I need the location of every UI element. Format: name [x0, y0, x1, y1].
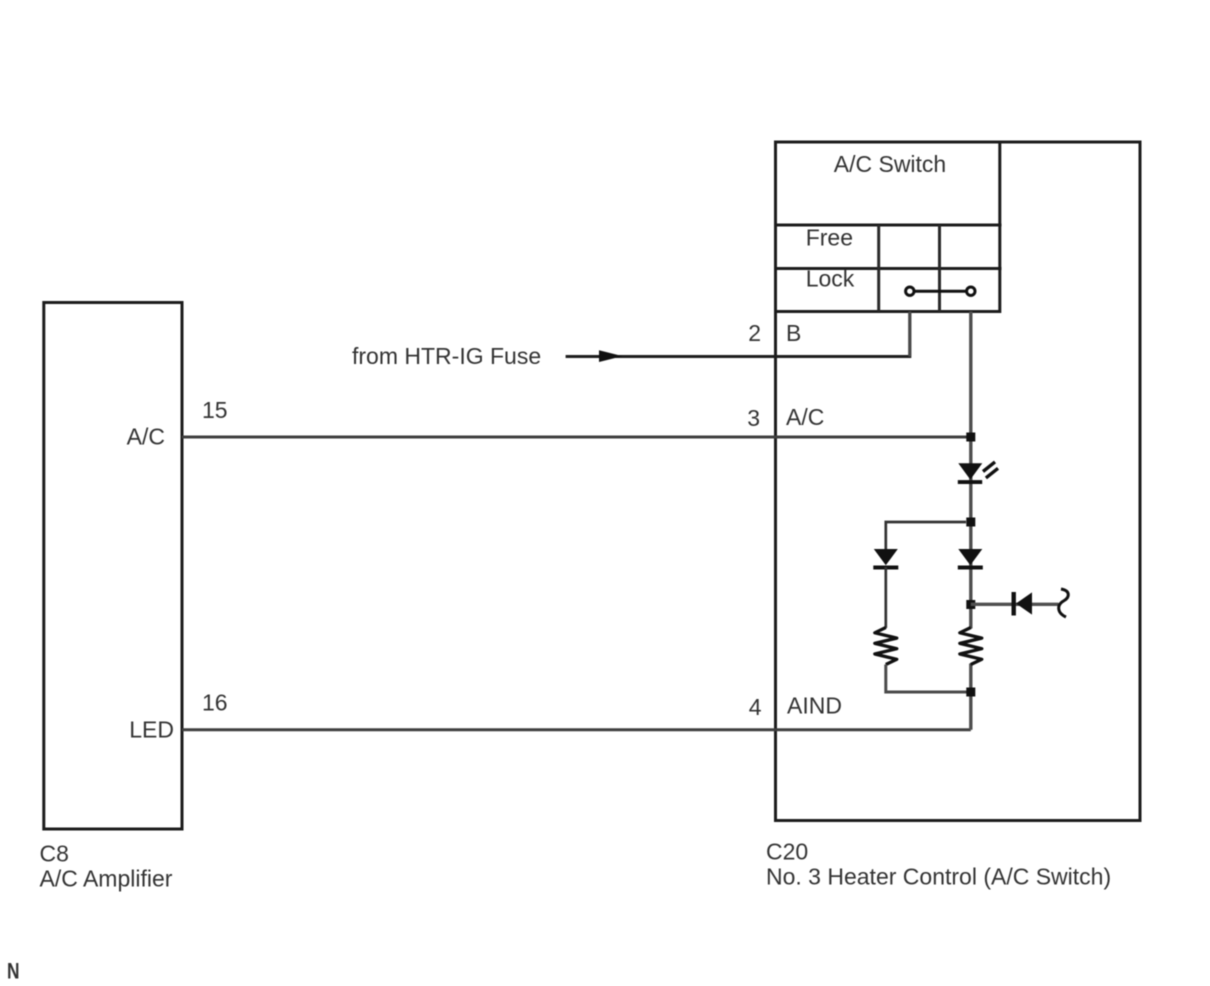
svg-text:AIND: AIND [787, 693, 842, 719]
wire LED: C8 pin 16 to C20 pin 4 AIND [182, 728, 971, 731]
svg-text:2: 2 [748, 320, 761, 346]
A/C Switch table box [776, 142, 1000, 312]
svg-text:N: N [7, 959, 20, 984]
wire left resistor down and across to junction [886, 665, 971, 693]
svg-text:LED: LED [129, 717, 174, 743]
blocking diode D4 (triangle pointing left) [1016, 592, 1032, 614]
table vertical divider 2 [938, 225, 941, 312]
table line below title [774, 224, 1002, 227]
wire-break squiggle at right end [1059, 589, 1069, 617]
connector C8 box (A/C Amplifier) [44, 303, 182, 830]
svg-text:Free: Free [806, 225, 853, 251]
junction node at branch split [966, 518, 975, 527]
resistor R2 right [960, 628, 982, 665]
wire from HTR-IG fuse to pin 2 B [566, 312, 910, 357]
svg-text:from HTR-IG Fuse: from HTR-IG Fuse [352, 343, 541, 369]
svg-text:A/C Switch: A/C Switch [834, 151, 946, 177]
wire A/C: C8 pin 15 to C20 pin 3 [182, 436, 971, 439]
diode D2 cathode bar [873, 566, 898, 570]
svg-text:B: B [786, 320, 801, 346]
LED indicator diode D1 (triangle) [958, 463, 982, 479]
svg-text:C20: C20 [766, 839, 808, 865]
LED emission slash 2 [986, 468, 998, 478]
svg-text:Lock: Lock [806, 265, 855, 291]
diode D3 right (triangle) [958, 549, 982, 565]
main vertical wire from switch contact down to right resistor top [969, 312, 972, 629]
junction node at resistor bottoms [966, 688, 975, 697]
diode D3 cathode bar [958, 566, 983, 570]
svg-text:3: 3 [747, 405, 760, 431]
main vertical wire from right resistor bottom to AIND wire [969, 664, 972, 730]
junction node at diode branch [966, 600, 975, 609]
junction node on A/C wire [966, 433, 975, 442]
table vertical divider 1 [877, 225, 880, 312]
svg-text:No. 3 Heater Control (A/C Swit: No. 3 Heater Control (A/C Switch) [766, 864, 1111, 890]
svg-text:C8: C8 [40, 841, 69, 867]
svg-text:A/C: A/C [786, 404, 824, 430]
branch wire to left diode leg [886, 522, 966, 549]
diode D2 left (triangle) [874, 549, 898, 565]
svg-text:4: 4 [749, 694, 762, 720]
connector C20 box (No. 3 Heater Control) [776, 142, 1141, 821]
table line between Free and Lock [774, 267, 1002, 270]
switch contact circle right [967, 287, 975, 295]
blocking diode D4 cathode bar [1012, 592, 1016, 616]
svg-text:A/C: A/C [127, 424, 165, 450]
svg-text:A/C Amplifier: A/C Amplifier [40, 866, 173, 892]
LED emission slash 1 [983, 462, 995, 472]
LED diode D1 cathode bar [958, 480, 982, 484]
svg-text:15: 15 [202, 397, 228, 423]
wire from junction to blocking diode [971, 603, 1059, 606]
wire riser from switch contact to B wire [908, 312, 911, 357]
svg-text:16: 16 [202, 690, 228, 716]
switch contact line [913, 290, 968, 293]
arrowhead on fuse wire [599, 350, 623, 362]
resistor R1 left [875, 628, 897, 665]
switch contact circle left [906, 287, 914, 295]
wire left diode to left resistor [884, 567, 887, 628]
